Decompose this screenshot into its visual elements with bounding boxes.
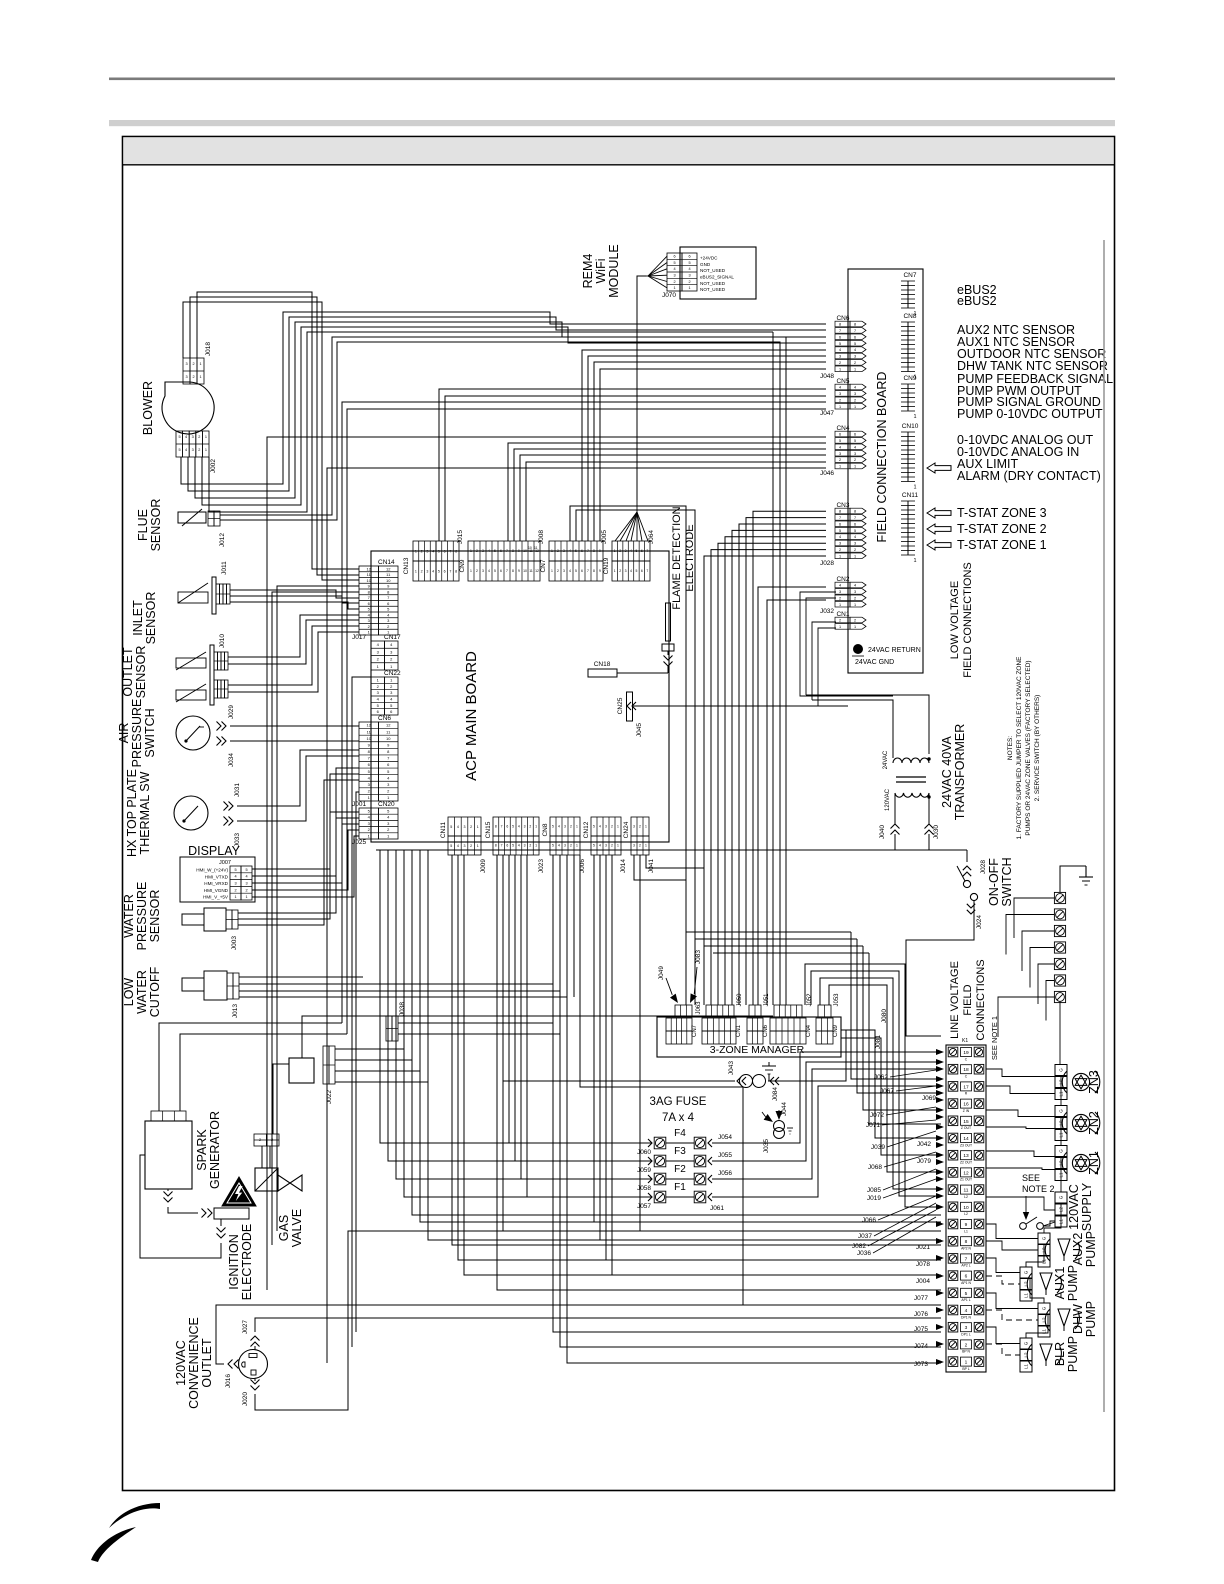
svg-text:NOTES:: NOTES:	[1007, 736, 1014, 760]
svg-text:8: 8	[593, 549, 595, 553]
wires right trunk to field-bottom staircase	[686, 931, 851, 933]
svg-text:2: 2	[368, 624, 371, 629]
wires low water cutoff	[239, 976, 363, 978]
svg-text:3: 3	[464, 844, 466, 848]
svg-text:SEE: SEE	[1022, 1173, 1040, 1183]
svg-text:HMI_VRXD: HMI_VRXD	[204, 881, 228, 886]
svg-text:3: 3	[387, 821, 390, 826]
connector CN8 (field right)	[907, 322, 909, 372]
svg-text:Z1 OUT: Z1 OUT	[960, 1178, 972, 1182]
transformer 120VAC coil	[895, 793, 929, 797]
svg-text:CN6: CN6	[836, 315, 849, 322]
svg-text:2: 2	[198, 435, 200, 439]
svg-text:1: 1	[614, 549, 616, 553]
svg-text:1: 1	[205, 448, 207, 452]
svg-text:1: 1	[477, 844, 479, 848]
svg-text:6: 6	[506, 825, 508, 829]
svg-text:FIELD CONNECTION BOARD: FIELD CONNECTION BOARD	[875, 372, 889, 543]
svg-text:7: 7	[501, 825, 503, 829]
svg-text:J041: J041	[648, 859, 655, 873]
svg-text:8: 8	[854, 510, 856, 514]
svg-text:7: 7	[646, 549, 648, 553]
svg-text:5: 5	[575, 549, 577, 553]
ground chain for G terminals	[1059, 1001, 1061, 1065]
svg-text:5: 5	[839, 439, 841, 443]
svg-text:Z OUT: Z OUT	[961, 1126, 971, 1130]
svg-text:3: 3	[387, 782, 390, 787]
svg-text:1: 1	[854, 625, 856, 629]
svg-text:J045: J045	[636, 723, 643, 737]
svg-text:2: 2	[854, 596, 856, 600]
connector CN19 / J064	[612, 541, 650, 561]
svg-text:J016: J016	[225, 1374, 232, 1388]
wire left trunk to field CN4 pin	[327, 468, 826, 1363]
svg-text:SENSOR: SENSOR	[144, 592, 158, 645]
svg-text:4: 4	[518, 825, 520, 829]
svg-text:1: 1	[551, 549, 553, 553]
svg-text:9: 9	[965, 1222, 968, 1228]
svg-text:FIELD CONNECTIONS: FIELD CONNECTIONS	[962, 562, 974, 678]
24VAC return dot	[853, 644, 863, 654]
svg-text:120VAC: 120VAC	[1067, 1184, 1081, 1230]
svg-text:6: 6	[390, 709, 393, 714]
svg-text:AUX1: AUX1	[1053, 1267, 1067, 1300]
svg-text:5: 5	[387, 607, 390, 612]
svg-text:J054: J054	[718, 1134, 732, 1141]
svg-text:LOW: LOW	[122, 978, 136, 1007]
svg-text:3: 3	[185, 362, 187, 366]
svg-text:HMI_VGND: HMI_VGND	[204, 888, 229, 893]
svg-text:GENERATOR: GENERATOR	[208, 1111, 222, 1189]
svg-text:1: 1	[617, 844, 619, 848]
svg-text:2: 2	[387, 827, 390, 832]
svg-text:FLAME DETECTION: FLAME DETECTION	[671, 506, 683, 609]
svg-text:7A x 4: 7A x 4	[662, 1112, 695, 1124]
svg-text:3: 3	[839, 392, 841, 396]
connector CN2 / J032 (field)	[835, 582, 850, 588]
arrow J034	[222, 737, 227, 746]
svg-text:AIR: AIR	[117, 723, 131, 744]
svg-text:OUTLET: OUTLET	[121, 647, 135, 697]
svg-text:WiFi: WiFi	[594, 259, 608, 284]
svg-text:J019: J019	[867, 1195, 881, 1202]
terminal strip feed arrows	[936, 1049, 944, 1055]
svg-text:J001: J001	[352, 801, 366, 808]
svg-text:2: 2	[377, 657, 380, 662]
zone valve ZN2	[1055, 1106, 1067, 1117]
svg-text:ALARM (DRY CONTACT): ALARM (DRY CONTACT)	[957, 469, 1101, 483]
svg-text:4: 4	[839, 584, 841, 588]
svg-text:J052: J052	[807, 993, 813, 1007]
spark generator	[145, 1121, 192, 1189]
svg-text:3: 3	[368, 618, 371, 623]
svg-text:J063: J063	[696, 1001, 702, 1015]
svg-text:5: 5	[178, 435, 180, 439]
svg-text:17: 17	[963, 1084, 969, 1090]
svg-text:4: 4	[569, 549, 571, 553]
wire J002 to right trunk	[209, 332, 773, 512]
connector J038	[386, 1016, 392, 1041]
svg-text:2. SERVICE SWITCH (BY OTHERS): 2. SERVICE SWITCH (BY OTHERS)	[1034, 695, 1041, 802]
svg-text:1: 1	[839, 625, 841, 629]
svg-text:3: 3	[390, 690, 393, 695]
svg-text:8: 8	[839, 323, 841, 327]
svg-text:2: 2	[570, 825, 572, 829]
svg-text:9: 9	[387, 584, 390, 589]
svg-text:SEE NOTE 1: SEE NOTE 1	[990, 1016, 999, 1060]
svg-text:6: 6	[839, 433, 841, 437]
svg-text:4: 4	[839, 445, 841, 449]
svg-text:3: 3	[563, 549, 565, 553]
svg-text:1: 1	[839, 367, 841, 371]
svg-text:7: 7	[449, 549, 451, 553]
svg-text:BLR: BLR	[1053, 1342, 1067, 1366]
svg-text:1: 1	[390, 678, 393, 683]
svg-text:F2: F2	[674, 1164, 686, 1175]
svg-text:J085: J085	[867, 1187, 881, 1194]
svg-text:3: 3	[688, 274, 690, 278]
svg-text:J020: J020	[242, 1392, 249, 1406]
svg-text:J061: J061	[710, 1205, 724, 1212]
connector CN3 / J028 (field)	[835, 508, 850, 514]
top rule	[109, 78, 1115, 81]
svg-text:T-STAT ZONE 2: T-STAT ZONE 2	[957, 522, 1047, 536]
svg-text:4: 4	[387, 815, 390, 820]
svg-text:5: 5	[854, 342, 856, 346]
center trunk verticals	[380, 850, 646, 1143]
transformer core	[896, 776, 926, 778]
svg-text:5: 5	[854, 529, 856, 533]
svg-text:2: 2	[377, 684, 380, 689]
svg-text:2: 2	[639, 825, 641, 829]
pump AUX1 PUMP	[1020, 1267, 1032, 1278]
svg-text:11: 11	[534, 546, 538, 550]
svg-text:CN9: CN9	[459, 559, 466, 572]
svg-text:3-ZONE MANAGER: 3-ZONE MANAGER	[710, 1044, 805, 1056]
svg-text:12: 12	[367, 723, 372, 728]
svg-text:6: 6	[673, 255, 675, 259]
svg-text:2: 2	[839, 361, 841, 365]
svg-text:FIELD: FIELD	[962, 984, 974, 1015]
wire J084 to right	[768, 1030, 846, 1081]
svg-text:DISPLAY: DISPLAY	[188, 844, 241, 858]
svg-text:J059: J059	[637, 1167, 651, 1174]
svg-text:J048: J048	[820, 373, 834, 380]
svg-text:9: 9	[518, 549, 520, 553]
svg-text:1: 1	[377, 678, 380, 683]
svg-text:3: 3	[192, 435, 194, 439]
wires CN24 down	[634, 855, 686, 880]
svg-text:G: G	[1024, 1270, 1029, 1274]
svg-text:SUPPLY: SUPPLY	[1080, 1182, 1094, 1231]
connector CN13 / J015	[413, 541, 459, 561]
svg-text:J047: J047	[820, 410, 834, 417]
connector CN20 / J025	[359, 808, 379, 839]
svg-text:4: 4	[432, 569, 434, 573]
svg-text:4: 4	[377, 697, 380, 702]
svg-text:1: 1	[390, 664, 393, 669]
wire left trunk to ACP CN22 pin	[352, 677, 371, 1347]
svg-text:G: G	[1059, 1149, 1064, 1153]
svg-text:2: 2	[611, 825, 613, 829]
svg-text:6: 6	[965, 1274, 968, 1280]
connector CN14 / J017	[359, 566, 379, 635]
connector CN18	[588, 669, 617, 677]
svg-text:8: 8	[455, 569, 457, 573]
svg-text:6: 6	[581, 569, 583, 573]
svg-text:5: 5	[438, 569, 440, 573]
svg-text:3: 3	[673, 274, 675, 278]
svg-text:3: 3	[965, 1325, 968, 1331]
svg-text:4: 4	[432, 549, 434, 553]
svg-text:4: 4	[839, 386, 841, 390]
fuse F3	[654, 1155, 666, 1167]
gas valve control box	[289, 1058, 314, 1083]
svg-text:5: 5	[387, 809, 390, 814]
svg-text:5: 5	[635, 549, 637, 553]
svg-text:8: 8	[368, 589, 371, 594]
svg-text:5: 5	[245, 868, 247, 872]
svg-text:5: 5	[438, 549, 440, 553]
svg-text:12: 12	[367, 566, 372, 571]
arrow J028 switch	[963, 866, 971, 870]
wire spark generator loop to ignition electrode	[168, 1207, 198, 1213]
svg-text:12: 12	[386, 723, 391, 728]
svg-text:J042: J042	[917, 1141, 931, 1148]
svg-text:2: 2	[688, 280, 690, 284]
svg-text:AP1 N: AP1 N	[961, 1281, 971, 1285]
svg-text:1: 1	[854, 554, 856, 558]
svg-text:CN7: CN7	[692, 1024, 698, 1037]
svg-text:2: 2	[854, 548, 856, 552]
svg-text:1: 1	[199, 362, 201, 366]
svg-text:4: 4	[488, 549, 490, 553]
svg-text:4: 4	[387, 612, 390, 617]
svg-text:3: 3	[633, 844, 635, 848]
svg-text:CUTOFF: CUTOFF	[148, 966, 162, 1017]
zone manager connector CN6 / J051	[747, 1018, 763, 1031]
svg-text:CN6: CN6	[763, 1024, 769, 1037]
connector CN17	[371, 641, 385, 670]
svg-text:F3: F3	[674, 1146, 686, 1157]
svg-text:PUMPS OR 24VAC ZONE VALVES (F: PUMPS OR 24VAC ZONE VALVES (FACTORY SELE…	[1025, 660, 1032, 835]
svg-text:Z IN: Z IN	[963, 1109, 970, 1113]
svg-text:4: 4	[688, 267, 690, 271]
arrow J016	[228, 1360, 233, 1369]
svg-text:5: 5	[575, 569, 577, 573]
connector J002	[176, 431, 183, 457]
svg-text:5: 5	[854, 439, 856, 443]
svg-text:2: 2	[529, 844, 531, 848]
svg-text:7: 7	[449, 569, 451, 573]
svg-text:CN13: CN13	[403, 557, 410, 574]
svg-text:7: 7	[854, 516, 856, 520]
svg-text:2: 2	[421, 549, 423, 553]
svg-text:VALVE: VALVE	[290, 1209, 304, 1247]
zone valve feed wires	[986, 1069, 1055, 1077]
wire risers CN13 J015 to field CN5	[439, 389, 826, 541]
svg-text:2: 2	[619, 569, 621, 573]
svg-text:3: 3	[605, 844, 607, 848]
wire CN8 riser long loop	[580, 855, 743, 1305]
svg-text:8: 8	[593, 569, 595, 573]
svg-text:CN22: CN22	[384, 670, 401, 677]
svg-text:10: 10	[523, 569, 527, 573]
fan-in from J070	[648, 256, 667, 276]
svg-text:8: 8	[387, 589, 390, 594]
svg-text:3: 3	[605, 825, 607, 829]
svg-text:PRESSURE: PRESSURE	[130, 699, 144, 768]
fuse F4	[654, 1137, 666, 1149]
fuse F2	[654, 1173, 666, 1185]
connector CN6 / J001	[359, 722, 379, 801]
svg-text:SENSOR: SENSOR	[149, 499, 163, 552]
svg-text:14: 14	[963, 1136, 969, 1142]
svg-text:5: 5	[512, 825, 514, 829]
svg-text:4: 4	[368, 815, 371, 820]
svg-text:6: 6	[500, 549, 502, 553]
svg-text:1: 1	[854, 367, 856, 371]
svg-text:1: 1	[415, 549, 417, 553]
svg-text:18: 18	[963, 1067, 969, 1073]
svg-text:24VAC RETURN: 24VAC RETURN	[868, 647, 921, 654]
svg-text:1: 1	[415, 569, 417, 573]
fuse F1	[654, 1191, 666, 1203]
connector CN10 (field right)	[907, 432, 909, 482]
svg-text:7: 7	[506, 549, 508, 553]
svg-text:J035: J035	[763, 1139, 770, 1153]
wires CN2 CN1 to transformer	[800, 592, 893, 696]
svg-text:J032: J032	[820, 608, 834, 615]
wire J043 feed	[503, 1080, 735, 1082]
svg-text:INLET: INLET	[131, 600, 145, 636]
svg-text:G: G	[1059, 1195, 1064, 1199]
svg-text:7: 7	[854, 329, 856, 333]
svg-text:CN18: CN18	[594, 661, 611, 668]
svg-text:CN14: CN14	[378, 559, 395, 566]
svg-text:CN11: CN11	[902, 492, 919, 499]
svg-text:3: 3	[377, 649, 380, 654]
svg-text:5: 5	[450, 844, 452, 848]
ground symbol right	[1085, 866, 1087, 877]
svg-text:2: 2	[476, 569, 478, 573]
svg-text:G: G	[1059, 1068, 1064, 1072]
svg-text:J009: J009	[480, 859, 487, 873]
svg-text:9: 9	[518, 569, 520, 573]
ground below zone manager	[768, 1074, 770, 1081]
svg-text:7: 7	[839, 329, 841, 333]
on-off switch	[963, 880, 970, 887]
svg-text:2: 2	[234, 888, 236, 892]
svg-text:CN11: CN11	[440, 822, 447, 839]
svg-text:J012: J012	[219, 533, 226, 547]
svg-text:4: 4	[569, 569, 571, 573]
svg-text:DP1 L: DP1 L	[961, 1333, 971, 1337]
svg-text:ZN1: ZN1	[1087, 1151, 1101, 1175]
svg-text:J053: J053	[834, 993, 840, 1007]
svg-text:10: 10	[963, 1205, 969, 1211]
svg-text:5: 5	[512, 844, 514, 848]
svg-text:5: 5	[390, 703, 393, 708]
transformer 24VAC coil	[893, 758, 929, 763]
svg-text:3: 3	[245, 882, 247, 886]
svg-text:J002: J002	[210, 459, 217, 473]
svg-text:WATER: WATER	[122, 894, 136, 938]
svg-text:J037: J037	[858, 1233, 872, 1240]
svg-text:2: 2	[854, 619, 856, 623]
svg-text:5: 5	[839, 342, 841, 346]
svg-text:J079: J079	[917, 1158, 931, 1165]
svg-text:CONVENIENCE: CONVENIENCE	[187, 1317, 201, 1409]
svg-text:4: 4	[630, 569, 632, 573]
svg-text:1: 1	[551, 569, 553, 573]
svg-text:J017: J017	[352, 634, 366, 641]
svg-text:CN8: CN8	[542, 823, 549, 836]
svg-text:3: 3	[839, 542, 841, 546]
svg-text:REM4: REM4	[581, 254, 595, 289]
wires CN15 down to terminal strip	[497, 855, 941, 1290]
svg-text:13: 13	[963, 1153, 969, 1159]
svg-text:PUMP: PUMP	[1084, 1301, 1098, 1337]
svg-text:J004: J004	[916, 1278, 930, 1285]
svg-text:L1: L1	[1024, 1364, 1029, 1370]
svg-text:1: 1	[854, 603, 856, 607]
svg-text:6: 6	[641, 569, 643, 573]
svg-text:Z2 OUT: Z2 OUT	[960, 1161, 972, 1165]
connector J022	[323, 1046, 329, 1084]
arrow J030	[925, 824, 934, 829]
svg-text:4: 4	[558, 825, 560, 829]
svg-text:6: 6	[377, 709, 380, 714]
svg-text:3: 3	[185, 375, 187, 379]
svg-text:DHW TANK NTC SENSOR: DHW TANK NTC SENSOR	[957, 359, 1108, 373]
svg-text:2: 2	[529, 825, 531, 829]
svg-text:16: 16	[963, 1102, 969, 1108]
svg-text:5: 5	[965, 1291, 968, 1297]
svg-text:HX TOP PLATE: HX TOP PLATE	[125, 769, 139, 857]
svg-text:J039: J039	[871, 1144, 885, 1151]
svg-text:2: 2	[421, 569, 423, 573]
svg-text:NOT_USED: NOT_USED	[700, 287, 726, 292]
svg-text:J003: J003	[231, 936, 238, 950]
svg-text:1: 1	[368, 630, 371, 635]
svg-text:2: 2	[854, 398, 856, 402]
svg-text:CN1: CN1	[736, 1024, 742, 1037]
svg-text:J044: J044	[781, 1102, 788, 1116]
svg-text:3: 3	[625, 569, 627, 573]
svg-text:CN5: CN5	[836, 378, 849, 385]
svg-text:5: 5	[839, 529, 841, 533]
outer frame	[123, 137, 1115, 1491]
svg-text:1: 1	[205, 435, 207, 439]
svg-text:HMI_V_+5V: HMI_V_+5V	[203, 895, 229, 900]
svg-text:J056: J056	[718, 1170, 732, 1177]
svg-text:1: 1	[645, 844, 647, 848]
svg-text:J040: J040	[879, 825, 886, 839]
svg-text:1: 1	[614, 569, 616, 573]
svg-text:6: 6	[854, 522, 856, 526]
svg-text:SENSOR: SENSOR	[134, 646, 148, 699]
svg-text:7: 7	[587, 549, 589, 553]
svg-text:3AG FUSE: 3AG FUSE	[650, 1096, 707, 1108]
svg-text:9: 9	[599, 549, 601, 553]
wire bundle left trunk to field CN5	[342, 402, 826, 1023]
connector CN25 / J045	[627, 692, 633, 721]
arrow below spark generator	[164, 1198, 173, 1203]
svg-text:ZN2: ZN2	[1087, 1111, 1101, 1135]
service switch	[1020, 1223, 1027, 1230]
svg-text:CN9: CN9	[833, 1024, 839, 1037]
